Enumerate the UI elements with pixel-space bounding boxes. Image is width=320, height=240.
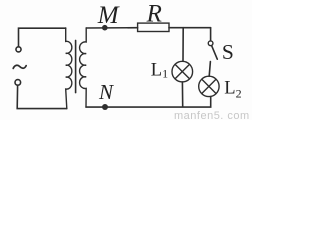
wire L1 branch upper [182,28,184,62]
wire secondary top to node M and resistor [86,27,137,29]
wire right branch corner down to switch [210,28,212,41]
wire top-left from AC source to primary coil [19,28,66,46]
node N dot [102,104,108,110]
svg-text:L2: L2 [224,79,241,101]
svg-text:S: S [222,40,234,64]
svg-text:manfen5. com: manfen5. com [174,110,250,120]
wire resistor to switch branch corner [169,27,211,29]
svg-text:L1: L1 [151,60,168,80]
switch S blade (open) [212,46,218,59]
wire L2 bottom corner [86,97,211,108]
terminal circle bottom [15,80,21,86]
transformer core [75,40,77,92]
wire bottom-left from AC source to primary coil [17,86,67,109]
AC tilde symbol [13,65,26,68]
lamp L2 [199,76,219,96]
wire L1 lower [181,82,183,107]
node M dot [102,25,108,31]
svg-text:R: R [146,0,162,27]
transformer primary coil [66,28,72,109]
lamp L1 [172,61,193,82]
wire switch lower contact to lamp L2 [209,62,210,77]
switch S pivot circle [208,41,213,46]
terminal circle top [16,47,21,52]
svg-text:N: N [98,80,114,104]
svg-text:M: M [97,2,120,29]
transformer secondary coil [80,28,87,107]
resistor R [138,23,169,31]
